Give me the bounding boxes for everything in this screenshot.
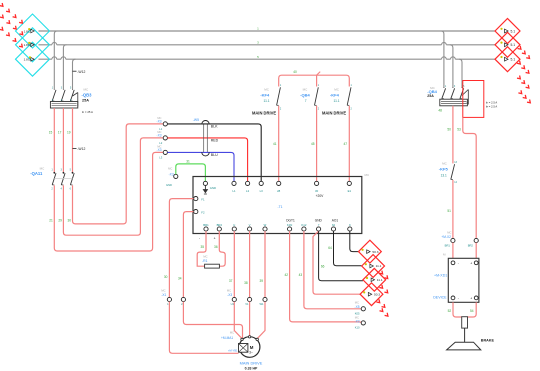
svg-text:BLU: BLU <box>211 153 218 157</box>
svg-text:MC: MC <box>83 88 88 92</box>
svg-text:21: 21 <box>49 218 53 222</box>
svg-text:11.1: 11.1 <box>376 264 382 268</box>
svg-text:41: 41 <box>273 142 277 146</box>
svg-text:GND: GND <box>315 218 323 222</box>
svg-text:DGT1: DGT1 <box>286 218 295 222</box>
svg-text:-KF4: -KF4 <box>330 92 340 97</box>
svg-text:-: - <box>458 297 459 301</box>
svg-text:+M-X2: +M-X2 <box>441 235 451 239</box>
svg-text:V: V <box>249 223 251 227</box>
svg-text:11.1: 11.1 <box>377 278 383 282</box>
svg-text:62: 62 <box>332 223 336 227</box>
svg-text:-X3: -X3 <box>157 148 162 152</box>
svg-text:BRAKE: BRAKE <box>481 338 495 342</box>
svg-text:BR2: BR2 <box>217 223 223 227</box>
svg-text:5.1: 5.1 <box>511 43 516 47</box>
svg-text:K12: K12 <box>301 223 306 227</box>
svg-text:In = 25 A: In = 25 A <box>82 110 93 114</box>
svg-text:BLK: BLK <box>211 125 218 129</box>
svg-text:-X3: -X3 <box>157 120 162 124</box>
svg-text:11.1: 11.1 <box>334 99 340 103</box>
svg-text:MC: MC <box>40 166 45 170</box>
svg-text:MAIN DRIVE: MAIN DRIVE <box>252 110 276 115</box>
svg-text:11.1: 11.1 <box>264 99 270 103</box>
svg-text:BR1: BR1 <box>203 223 209 227</box>
svg-text:34: 34 <box>178 277 182 281</box>
svg-text:K1N: K1N <box>287 223 292 227</box>
svg-text:50: 50 <box>447 127 451 131</box>
svg-text:MC: MC <box>161 289 165 293</box>
svg-text:+M-MA1: +M-MA1 <box>221 336 233 340</box>
svg-text:53: 53 <box>457 127 461 131</box>
svg-text:+: + <box>470 261 472 265</box>
svg-text:F2: F2 <box>201 210 205 214</box>
svg-text:+M-XD1: +M-XD1 <box>434 274 447 278</box>
svg-text:-T1: -T1 <box>277 205 282 209</box>
svg-text:31: 31 <box>186 160 190 164</box>
svg-text:L2: L2 <box>246 189 250 193</box>
svg-text:W: W <box>264 223 267 227</box>
svg-text:45: 45 <box>311 142 315 146</box>
svg-text:52: 52 <box>448 309 452 313</box>
svg-text:42: 42 <box>284 273 288 277</box>
svg-text:48: 48 <box>438 108 442 112</box>
svg-text:-X1: -X1 <box>161 293 166 297</box>
svg-text:-X3: -X3 <box>169 172 174 176</box>
svg-text:-W12: -W12 <box>77 70 85 74</box>
svg-text:MAIN DRIVE: MAIN DRIVE <box>240 361 263 366</box>
svg-text:GND: GND <box>210 186 216 190</box>
svg-text:5.1: 5.1 <box>511 58 516 62</box>
svg-text:L2: L2 <box>159 141 162 145</box>
svg-text:-QB3: -QB3 <box>82 93 93 98</box>
svg-text:-KF4: -KF4 <box>260 92 270 97</box>
svg-text:U: U <box>233 223 235 227</box>
svg-text:47: 47 <box>343 142 347 146</box>
svg-text:7: 7 <box>305 99 307 103</box>
svg-text:E1: E1 <box>348 189 352 193</box>
svg-text:In = 2.5 A: In = 2.5 A <box>486 100 498 104</box>
svg-text:MC: MC <box>355 300 359 304</box>
svg-text:AO1: AO1 <box>332 218 339 222</box>
svg-text:3~: 3~ <box>249 351 253 355</box>
svg-text:51: 51 <box>447 209 451 213</box>
svg-text:MC: MC <box>168 167 172 171</box>
svg-text:64: 64 <box>328 246 332 250</box>
svg-text:L1: L1 <box>232 189 236 193</box>
svg-text:40: 40 <box>293 70 297 74</box>
svg-text:43: 43 <box>299 273 303 277</box>
svg-text:+: + <box>214 236 216 240</box>
svg-text:38: 38 <box>244 281 248 285</box>
svg-text:MAIN DRIVE: MAIN DRIVE <box>322 110 346 115</box>
svg-text:BR1: BR1 <box>445 244 451 248</box>
svg-text:19: 19 <box>67 131 71 135</box>
svg-text:39: 39 <box>259 279 263 283</box>
svg-text:5.1: 5.1 <box>511 29 516 33</box>
svg-text:K05: K05 <box>355 311 360 315</box>
svg-text:-QB4: -QB4 <box>300 92 310 97</box>
svg-text:29: 29 <box>58 218 62 222</box>
svg-text:-KF5: -KF5 <box>439 167 449 172</box>
svg-text:+M-YB1: +M-YB1 <box>228 349 238 353</box>
svg-text:37: 37 <box>229 279 233 283</box>
svg-text:K10: K10 <box>355 326 360 330</box>
svg-text:30: 30 <box>67 218 71 222</box>
svg-text:17: 17 <box>58 131 62 135</box>
svg-text:35: 35 <box>200 245 204 249</box>
svg-text:Ie = 2.5 A: Ie = 2.5 A <box>486 105 498 109</box>
svg-text:BR2: BR2 <box>468 244 474 248</box>
svg-text:MC: MC <box>303 88 308 92</box>
svg-text:25A: 25A <box>427 94 434 98</box>
svg-text:30: 30 <box>315 189 319 193</box>
svg-text:MC: MC <box>442 161 447 165</box>
svg-text:50.3: 50.3 <box>372 250 378 254</box>
svg-text:-X3: -X3 <box>227 293 232 297</box>
svg-text:L3: L3 <box>260 189 264 193</box>
svg-text:GND: GND <box>166 183 172 187</box>
svg-text:28: 28 <box>277 189 281 193</box>
svg-text:-R1: -R1 <box>202 259 208 263</box>
svg-text:13.1: 13.1 <box>441 174 447 178</box>
svg-text:F1: F1 <box>201 197 205 201</box>
svg-text:V1: V1 <box>245 302 249 306</box>
svg-text:30: 30 <box>164 275 168 279</box>
svg-text:RED: RED <box>211 139 219 143</box>
svg-text:25A: 25A <box>82 99 89 103</box>
svg-text:-W12: -W12 <box>77 147 85 151</box>
svg-text:-X5: -X5 <box>355 305 360 309</box>
svg-text:MC: MC <box>230 330 234 334</box>
svg-text:-: - <box>458 261 459 265</box>
svg-text:-QA11: -QA11 <box>30 171 43 176</box>
svg-text:+: + <box>470 297 472 301</box>
svg-text:M: M <box>250 345 254 350</box>
svg-text:66: 66 <box>321 264 325 268</box>
svg-text:DEVICE: DEVICE <box>433 296 447 300</box>
svg-text:0.33 HP: 0.33 HP <box>245 366 258 370</box>
svg-text:50.3: 50.3 <box>374 292 380 296</box>
svg-text:-X3: -X3 <box>157 134 162 138</box>
svg-text:MC: MC <box>447 230 451 234</box>
svg-text:MC: MC <box>227 289 231 293</box>
svg-text:-X3: -X3 <box>355 319 360 323</box>
svg-text:-W5: -W5 <box>193 118 199 122</box>
svg-text:+20V: +20V <box>316 194 325 198</box>
svg-text:36: 36 <box>214 245 218 249</box>
svg-text:54: 54 <box>470 309 474 313</box>
svg-text:MC: MC <box>203 254 207 258</box>
svg-text:15: 15 <box>49 131 53 135</box>
svg-text:L3: L3 <box>159 156 162 160</box>
svg-text:W1: W1 <box>259 302 264 306</box>
